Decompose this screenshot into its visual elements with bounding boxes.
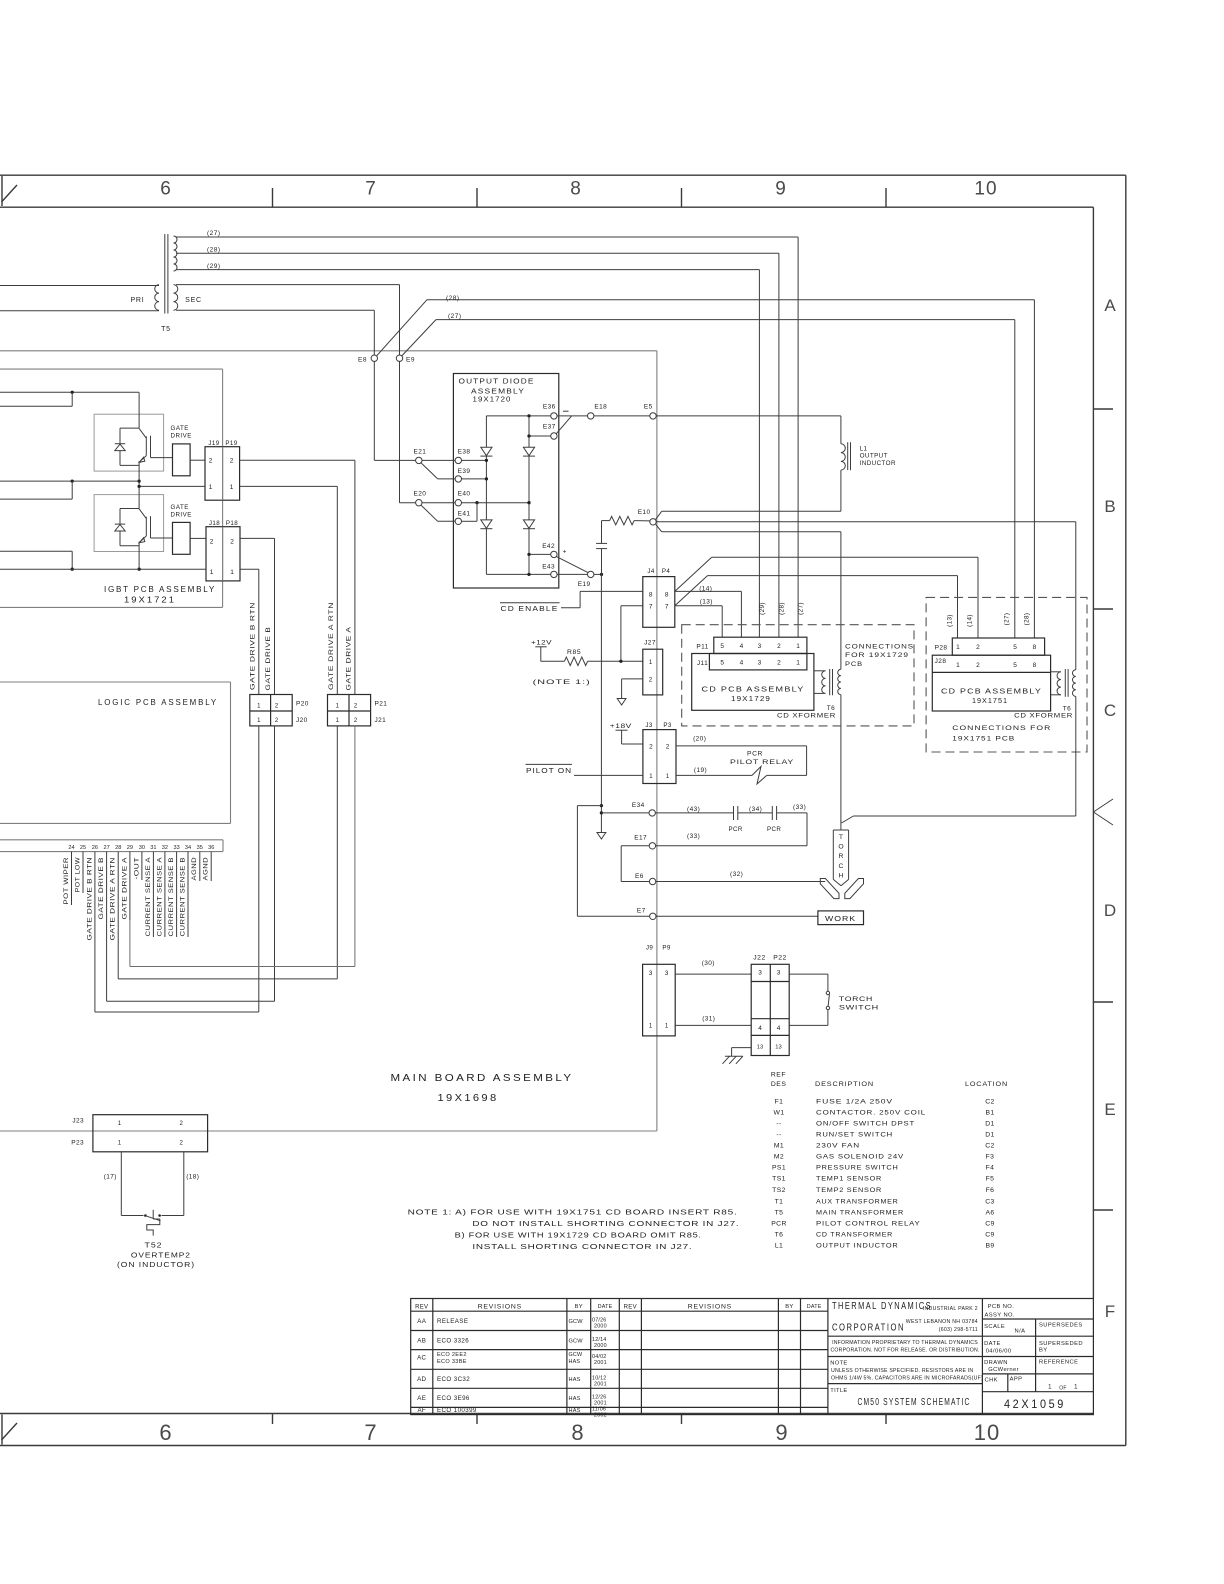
svg-text:34: 34 bbox=[185, 845, 191, 851]
svg-text:CD XFORMER: CD XFORMER bbox=[1014, 713, 1073, 720]
wire E8 below bbox=[373, 361, 375, 460]
svg-text:C2: C2 bbox=[985, 1098, 995, 1105]
svg-text:L1: L1 bbox=[860, 446, 868, 453]
wire J19 pin1 to phase leg bbox=[139, 485, 205, 487]
CD transformer T6 1751 core bbox=[1064, 669, 1066, 697]
terminal E5 bbox=[650, 413, 656, 419]
svg-text:(29): (29) bbox=[759, 602, 766, 615]
diode D upper-right bbox=[523, 447, 534, 455]
terminal E41 bbox=[455, 518, 461, 524]
svg-text:PCR: PCR bbox=[747, 750, 763, 757]
svg-text:E18: E18 bbox=[594, 403, 607, 410]
svg-text:CURRENT SENSE A: CURRENT SENSE A bbox=[156, 857, 163, 937]
svg-text:+12V: +12V bbox=[531, 639, 552, 646]
svg-text:P28: P28 bbox=[935, 645, 948, 652]
svg-text:2002: 2002 bbox=[594, 1413, 607, 1419]
wire pin26 to J20 pin1 bbox=[94, 941, 96, 1012]
svg-text:TEMP1 SENSOR: TEMP1 SENSOR bbox=[816, 1176, 882, 1183]
terminal E38 bbox=[455, 457, 461, 463]
svg-text:GCW: GCW bbox=[569, 1352, 583, 1358]
svg-text:CURRENT SENSE A: CURRENT SENSE A bbox=[145, 857, 152, 937]
svg-text:C3: C3 bbox=[985, 1199, 995, 1206]
svg-text:REF: REF bbox=[771, 1071, 786, 1078]
IGBT phase leg wire bbox=[138, 392, 140, 428]
capacitor PCR 1 bbox=[733, 806, 735, 820]
svg-text:J9: J9 bbox=[646, 945, 653, 952]
svg-text:D1: D1 bbox=[985, 1131, 995, 1138]
svg-text:E20: E20 bbox=[414, 491, 427, 498]
wire E7 to WORK bbox=[656, 915, 818, 917]
svg-text:TEMP2 SENSOR: TEMP2 SENSOR bbox=[816, 1187, 882, 1194]
connector J3 P3 bbox=[643, 730, 676, 784]
svg-text:A: A bbox=[1104, 296, 1116, 315]
svg-text:C2: C2 bbox=[985, 1143, 995, 1150]
svg-text:13: 13 bbox=[757, 1044, 763, 1050]
svg-text:J27: J27 bbox=[644, 639, 656, 646]
svg-text:INDUSTRIAL PARK 2: INDUSTRIAL PARK 2 bbox=[923, 1306, 978, 1312]
torch electrode right wing bbox=[845, 879, 864, 899]
wire E34 left to ground rail bbox=[601, 812, 649, 814]
svg-text:DATE: DATE bbox=[807, 1304, 822, 1310]
terminal E18 bbox=[588, 413, 594, 419]
dashed box connections for 19X1751 PCB bbox=[926, 597, 1087, 752]
svg-text:6: 6 bbox=[160, 179, 172, 200]
CD transformer T6 1751 secondary bbox=[1072, 670, 1075, 697]
svg-text:THERMAL DYNAMICS: THERMAL DYNAMICS bbox=[832, 1301, 932, 1312]
diode string right bbox=[528, 416, 530, 447]
svg-text:B9: B9 bbox=[985, 1242, 994, 1249]
svg-text:POT WIPER: POT WIPER bbox=[63, 857, 70, 905]
earth ground at J22 pin13 bbox=[732, 1047, 752, 1049]
svg-text:PCR: PCR bbox=[771, 1220, 787, 1227]
svg-text:8: 8 bbox=[665, 592, 669, 599]
wire pin27 to J20 pin2 bbox=[106, 920, 108, 1001]
svg-text:7: 7 bbox=[665, 604, 669, 611]
svg-text:C: C bbox=[1104, 701, 1116, 720]
svg-text:TS1: TS1 bbox=[772, 1176, 786, 1183]
svg-text:PRI: PRI bbox=[130, 297, 144, 304]
svg-text:19X1751: 19X1751 bbox=[972, 696, 1008, 705]
svg-text:REV: REV bbox=[415, 1304, 428, 1310]
svg-text:REFERENCE: REFERENCE bbox=[1039, 1360, 1078, 1366]
svg-text:CD XFORMER: CD XFORMER bbox=[777, 713, 836, 720]
CD PCB assembly box 19X1729 bbox=[692, 654, 814, 711]
svg-text:H: H bbox=[839, 872, 844, 879]
svg-text:3: 3 bbox=[758, 660, 762, 667]
terminal E19 bbox=[588, 571, 594, 577]
wire negative output rail E36-E18-E5 bbox=[486, 415, 550, 417]
svg-text:D1: D1 bbox=[985, 1120, 995, 1127]
svg-text:J18: J18 bbox=[209, 520, 220, 527]
svg-text:GATE DRIVE B: GATE DRIVE B bbox=[98, 857, 105, 920]
pin 31 leader and label CURRENT SENSE A bbox=[152, 852, 154, 937]
terminal E6 bbox=[649, 878, 655, 884]
wire J4 pin7 to J27 bbox=[621, 605, 643, 607]
connector J23 P23 bbox=[93, 1115, 208, 1152]
svg-text:4: 4 bbox=[740, 643, 744, 650]
wire E42 diagonal to E19 bbox=[556, 557, 588, 573]
svg-text:29: 29 bbox=[127, 845, 133, 851]
wire GATE DRIVE A RTN net bbox=[240, 485, 338, 487]
svg-text:FUSE 1/2A 250V: FUSE 1/2A 250V bbox=[816, 1098, 893, 1105]
svg-text:(33): (33) bbox=[687, 833, 700, 840]
svg-text:AGND: AGND bbox=[191, 857, 198, 881]
svg-text:DATE: DATE bbox=[984, 1341, 1001, 1347]
wire E17 row bbox=[656, 845, 807, 847]
svg-text:FOR 19X1729: FOR 19X1729 bbox=[845, 652, 909, 659]
svg-text:T5: T5 bbox=[161, 326, 171, 333]
svg-text:SEC: SEC bbox=[185, 297, 202, 304]
svg-text:OVERTEMP2: OVERTEMP2 bbox=[131, 1250, 191, 1259]
svg-text:D: D bbox=[1104, 901, 1116, 920]
wire net 14 to P11 pin4 bbox=[675, 590, 742, 592]
svg-text:F4: F4 bbox=[986, 1165, 995, 1172]
svg-text:MAIN TRANSFORMER: MAIN TRANSFORMER bbox=[816, 1209, 904, 1216]
main board assembly outline 19X1698 bbox=[0, 350, 657, 352]
svg-text:33: 33 bbox=[173, 845, 179, 851]
wire net 31 bbox=[675, 1024, 751, 1026]
svg-text:E8: E8 bbox=[358, 357, 367, 364]
ground rail from E19 bbox=[600, 574, 602, 832]
svg-text:2: 2 bbox=[777, 643, 781, 650]
wire T5 sec to E9 bbox=[176, 284, 400, 286]
svg-text:25: 25 bbox=[80, 845, 86, 851]
svg-text:AA: AA bbox=[417, 1318, 426, 1325]
svg-text:(31): (31) bbox=[702, 1016, 715, 1023]
svg-text:AB: AB bbox=[417, 1338, 426, 1345]
svg-text:7: 7 bbox=[649, 604, 653, 611]
wire net 29 from T5 bbox=[176, 269, 759, 271]
svg-text:E21: E21 bbox=[414, 449, 427, 456]
svg-text:GCW: GCW bbox=[569, 1339, 584, 1345]
svg-text:ECO 2EE2: ECO 2EE2 bbox=[437, 1352, 467, 1358]
pin 29 leader and label GATE DRIVE A bbox=[129, 852, 131, 920]
svg-text:PCR: PCR bbox=[729, 826, 743, 833]
svg-text:DES: DES bbox=[771, 1081, 786, 1088]
svg-text:(33): (33) bbox=[793, 804, 806, 811]
svg-text:C9: C9 bbox=[985, 1220, 995, 1227]
svg-text:HAS: HAS bbox=[569, 1377, 581, 1383]
svg-text:(28): (28) bbox=[778, 602, 785, 615]
output diode assembly box 19X1720 bbox=[453, 374, 558, 589]
svg-text:E5: E5 bbox=[644, 403, 653, 410]
wire pin29 to J21 pin2 bbox=[129, 920, 131, 967]
wire pin28 to J21 pin1 bbox=[117, 941, 119, 979]
diode D lower-left bbox=[481, 520, 492, 528]
svg-text:DRIVE: DRIVE bbox=[171, 433, 192, 440]
svg-text:GATE DRIVE A: GATE DRIVE A bbox=[121, 857, 128, 920]
svg-text:(20): (20) bbox=[693, 736, 706, 743]
IGBT transistor bbox=[139, 509, 146, 519]
svg-text:(603) 298-5711: (603) 298-5711 bbox=[939, 1327, 978, 1333]
connector J4 P4 bbox=[643, 577, 675, 628]
svg-text:8: 8 bbox=[649, 592, 653, 599]
svg-text:19X1698: 19X1698 bbox=[438, 1092, 499, 1104]
svg-text:SWITCH: SWITCH bbox=[839, 1005, 879, 1012]
svg-text:NOTE 1: A) FOR USE WITH 19X175: NOTE 1: A) FOR USE WITH 19X1751 CD BOARD… bbox=[408, 1208, 738, 1217]
wire gate to gate drive bbox=[151, 537, 173, 539]
svg-text:19X1751 PCB: 19X1751 PCB bbox=[952, 736, 1015, 743]
svg-text:GATE DRIVE A RTN: GATE DRIVE A RTN bbox=[328, 602, 335, 690]
svg-text:36: 36 bbox=[208, 845, 214, 851]
terminal E36 bbox=[551, 413, 557, 419]
svg-text:1: 1 bbox=[956, 644, 960, 651]
svg-text:(32): (32) bbox=[730, 871, 743, 878]
svg-text:PCB NO.: PCB NO. bbox=[988, 1304, 1015, 1310]
svg-text:RUN/SET SWITCH: RUN/SET SWITCH bbox=[816, 1131, 893, 1138]
wire E20 diagonal to E41 bbox=[421, 505, 438, 521]
svg-text:J11: J11 bbox=[697, 660, 708, 667]
wire J27 pin2 to ground bbox=[622, 678, 643, 680]
wire GATE DRIVE B net bbox=[240, 537, 275, 539]
svg-text:(14): (14) bbox=[699, 586, 712, 593]
svg-text:J28: J28 bbox=[935, 658, 947, 665]
svg-text:CD ENABLE: CD ENABLE bbox=[501, 604, 559, 613]
ground arrow under E34 rail bbox=[597, 833, 606, 840]
svg-text:3: 3 bbox=[649, 970, 653, 977]
svg-text:(13): (13) bbox=[947, 614, 954, 627]
logic pin header strip bbox=[0, 839, 223, 841]
svg-text:(27): (27) bbox=[448, 313, 462, 320]
svg-text:8: 8 bbox=[1033, 644, 1037, 651]
CD PCB assembly box 19X1751 bbox=[932, 655, 1050, 711]
resistor R85 bbox=[564, 657, 587, 665]
svg-text:RELEASE: RELEASE bbox=[437, 1318, 468, 1325]
svg-text:(28): (28) bbox=[446, 295, 460, 302]
gate drive block lower bbox=[173, 522, 191, 554]
svg-text:CORPORATION. NOT FOR RELEASE.: CORPORATION. NOT FOR RELEASE. OR DISTRIB… bbox=[830, 1347, 979, 1353]
svg-text:CD PCB ASSEMBLY: CD PCB ASSEMBLY bbox=[941, 687, 1042, 696]
svg-text:5: 5 bbox=[720, 643, 724, 650]
svg-text:1: 1 bbox=[1074, 1385, 1078, 1391]
connector P20 J20 bbox=[250, 695, 292, 726]
svg-text:T1: T1 bbox=[775, 1199, 784, 1206]
svg-text:(34): (34) bbox=[749, 806, 762, 813]
capacitor PCR 2 bbox=[771, 806, 773, 820]
terminal E37 and wire bbox=[529, 435, 551, 437]
svg-text:SCALE: SCALE bbox=[984, 1324, 1005, 1330]
connector J11 bbox=[709, 654, 807, 670]
wire E9 below bbox=[399, 361, 401, 502]
svg-text:13: 13 bbox=[775, 1044, 781, 1050]
wire PILOT ON to J3 pin1 bbox=[574, 774, 643, 776]
svg-text:GAS SOLENOID 24V: GAS SOLENOID 24V bbox=[816, 1154, 904, 1161]
svg-text:REVISIONS: REVISIONS bbox=[478, 1304, 522, 1311]
svg-text:(NOTE 1:): (NOTE 1:) bbox=[533, 679, 591, 686]
svg-text:J20: J20 bbox=[296, 717, 308, 724]
svg-text:TORCH: TORCH bbox=[839, 996, 873, 1003]
svg-text:P21: P21 bbox=[375, 701, 388, 708]
zone letter ticks right bbox=[1093, 408, 1113, 410]
svg-text:CONNECTIONS FOR: CONNECTIONS FOR bbox=[952, 725, 1051, 732]
pin 30 leader and label -OUT bbox=[141, 852, 143, 880]
svg-text:--: -- bbox=[776, 1120, 781, 1127]
svg-text:J21: J21 bbox=[375, 717, 387, 724]
wire net 27 from E9 to P28 pin5 bbox=[402, 320, 436, 356]
svg-text:(43): (43) bbox=[687, 806, 700, 813]
svg-text:E38: E38 bbox=[458, 449, 471, 456]
svg-text:04/06/00: 04/06/00 bbox=[986, 1349, 1012, 1355]
svg-text:ECO 3326: ECO 3326 bbox=[437, 1338, 469, 1345]
wire net 28 from T5 bbox=[176, 252, 779, 254]
CD transformer T6 1729 primary bbox=[814, 670, 826, 672]
svg-text:P4: P4 bbox=[662, 568, 671, 575]
diode D lower-right bbox=[523, 520, 534, 528]
svg-text:P23: P23 bbox=[71, 1140, 84, 1147]
svg-text:(28): (28) bbox=[207, 247, 221, 254]
connector P28 bbox=[952, 638, 1044, 655]
svg-text:E10: E10 bbox=[638, 509, 651, 516]
terminal E43 bbox=[551, 571, 557, 577]
svg-text:OHMS 1/4W 5%. CAPACITORS ARE I: OHMS 1/4W 5%. CAPACITORS ARE IN MICROFAR… bbox=[831, 1376, 983, 1382]
svg-text:GCWerner: GCWerner bbox=[988, 1367, 1019, 1373]
terminal E42 and wire bbox=[529, 553, 551, 555]
svg-text:TS2: TS2 bbox=[772, 1187, 786, 1194]
terminal E40 bbox=[455, 500, 461, 506]
svg-text:P22: P22 bbox=[773, 954, 787, 961]
svg-text:10: 10 bbox=[974, 1420, 1000, 1445]
svg-text:2001: 2001 bbox=[594, 1382, 607, 1388]
svg-text:P20: P20 bbox=[296, 701, 309, 708]
svg-text:E40: E40 bbox=[458, 491, 471, 498]
transformer T5 primary winding bbox=[155, 285, 159, 311]
terminal E9 bbox=[396, 355, 402, 361]
svg-text:O: O bbox=[838, 844, 843, 851]
svg-text:5: 5 bbox=[720, 660, 724, 667]
svg-text:7: 7 bbox=[364, 1420, 377, 1445]
svg-text:2001: 2001 bbox=[594, 1401, 607, 1407]
svg-text:GCW: GCW bbox=[569, 1319, 584, 1325]
wire E9 to E20 to E40 bbox=[400, 502, 416, 504]
svg-text:2: 2 bbox=[230, 538, 234, 545]
svg-text:24: 24 bbox=[68, 845, 74, 851]
svg-text:E19: E19 bbox=[578, 581, 591, 588]
connector P21 J21 bbox=[328, 695, 371, 726]
svg-text:T52: T52 bbox=[145, 1241, 163, 1250]
svg-text:1: 1 bbox=[796, 660, 800, 667]
svg-text:M2: M2 bbox=[774, 1154, 784, 1161]
svg-text:P18: P18 bbox=[226, 520, 238, 527]
svg-text:OUTPUT INDUCTOR: OUTPUT INDUCTOR bbox=[816, 1242, 899, 1249]
svg-text:5: 5 bbox=[1013, 644, 1017, 651]
svg-text:A6: A6 bbox=[985, 1209, 994, 1216]
svg-text:E37: E37 bbox=[543, 424, 556, 431]
svg-text:P19: P19 bbox=[225, 440, 237, 447]
svg-text:HAS: HAS bbox=[569, 1396, 581, 1402]
terminal E17 bbox=[649, 843, 655, 849]
svg-text:DATE: DATE bbox=[598, 1304, 613, 1310]
logic PCB assembly box bbox=[0, 681, 231, 683]
svg-text:GATE DRIVE B RTN: GATE DRIVE B RTN bbox=[86, 857, 93, 941]
svg-text:T6: T6 bbox=[827, 705, 835, 712]
terminal E7 bbox=[650, 913, 656, 919]
svg-text:AUX TRANSFORMER: AUX TRANSFORMER bbox=[816, 1199, 899, 1206]
svg-text:1: 1 bbox=[1048, 1385, 1052, 1391]
svg-text:AC: AC bbox=[417, 1355, 426, 1362]
svg-text:W1: W1 bbox=[774, 1109, 785, 1116]
wire gate drive lower to J18 bbox=[190, 537, 206, 539]
svg-text:CHK: CHK bbox=[985, 1377, 998, 1383]
svg-text:E9: E9 bbox=[406, 357, 415, 364]
svg-text:4: 4 bbox=[740, 660, 744, 667]
svg-text:WORK: WORK bbox=[825, 914, 856, 923]
svg-text:CURRENT SENSE B: CURRENT SENSE B bbox=[168, 857, 175, 937]
svg-text:E42: E42 bbox=[542, 543, 555, 550]
svg-text:(28): (28) bbox=[1023, 613, 1030, 626]
terminal E8 bbox=[371, 355, 377, 361]
svg-text:P11: P11 bbox=[696, 644, 708, 651]
svg-text:TITLE: TITLE bbox=[830, 1388, 847, 1394]
title block right column bbox=[981, 1299, 983, 1415]
svg-text:UNLESS OTHERWISE SPECIFIED. RE: UNLESS OTHERWISE SPECIFIED. RESISTORS AR… bbox=[831, 1368, 973, 1374]
svg-text:CM50 SYSTEM SCHEMATIC: CM50 SYSTEM SCHEMATIC bbox=[858, 1397, 971, 1408]
svg-text:GATE DRIVE B: GATE DRIVE B bbox=[265, 627, 272, 691]
svg-text:1: 1 bbox=[230, 569, 234, 576]
svg-text:DO NOT INSTALL SHORTING CONNEC: DO NOT INSTALL SHORTING CONNECTOR IN J27… bbox=[472, 1219, 739, 1228]
inductor L1 bbox=[841, 444, 845, 470]
svg-text:(27): (27) bbox=[798, 602, 805, 615]
svg-text:(30): (30) bbox=[702, 960, 715, 967]
svg-text:(18): (18) bbox=[186, 1174, 199, 1181]
zone ticks bottom bbox=[272, 1414, 274, 1425]
gate drive block upper bbox=[173, 444, 191, 476]
svg-text:(19): (19) bbox=[694, 767, 707, 774]
wire GATE DRIVE A net bbox=[240, 459, 355, 461]
svg-text:19X1721: 19X1721 bbox=[124, 595, 176, 605]
connector J27 bbox=[643, 649, 663, 695]
svg-text:T6: T6 bbox=[1063, 705, 1071, 712]
wire E7 to ground rail bbox=[577, 915, 649, 917]
svg-text:9: 9 bbox=[775, 1420, 788, 1445]
svg-text:NOTE: NOTE bbox=[830, 1361, 847, 1367]
terminal E21 bbox=[416, 457, 422, 463]
svg-text:31: 31 bbox=[150, 845, 156, 851]
svg-text:INFORMATION PROPRIETARY TO THE: INFORMATION PROPRIETARY TO THERMAL DYNAM… bbox=[832, 1340, 978, 1346]
svg-text:+18V: +18V bbox=[610, 723, 632, 730]
svg-text:T6: T6 bbox=[775, 1231, 784, 1238]
zone continuation arrow right bbox=[1093, 799, 1113, 812]
revision table rows bbox=[411, 1310, 828, 1312]
wire E10 to CD transformer 1751 secondary bbox=[656, 521, 1076, 523]
minus sign bbox=[563, 410, 569, 412]
svg-text:MAIN BOARD ASSEMBLY: MAIN BOARD ASSEMBLY bbox=[391, 1072, 574, 1084]
svg-text:HAS: HAS bbox=[569, 1359, 581, 1365]
svg-text:42X1059: 42X1059 bbox=[1004, 1399, 1066, 1411]
wire net 13 to P11 pin5 bbox=[675, 605, 722, 607]
svg-text:PCB: PCB bbox=[845, 661, 863, 668]
svg-text:BY: BY bbox=[575, 1304, 583, 1310]
svg-text:BY: BY bbox=[1039, 1348, 1048, 1354]
svg-text:PILOT RELAY: PILOT RELAY bbox=[730, 759, 794, 766]
svg-text:IGBT PCB ASSEMBLY: IGBT PCB ASSEMBLY bbox=[104, 584, 216, 594]
wire E34 capacitor chain bbox=[655, 812, 733, 814]
corner mark bottom-left bbox=[1, 1415, 3, 1445]
svg-text:35: 35 bbox=[197, 845, 203, 851]
svg-text:230V FAN: 230V FAN bbox=[816, 1143, 860, 1150]
svg-text:8: 8 bbox=[570, 179, 582, 200]
svg-text:3: 3 bbox=[777, 970, 781, 977]
svg-text:(17): (17) bbox=[104, 1174, 117, 1181]
pin 36 leader and label AGND bbox=[210, 852, 212, 881]
terminal E10 bbox=[650, 519, 656, 525]
terminal E20 bbox=[416, 500, 422, 506]
svg-text:B1: B1 bbox=[985, 1109, 994, 1116]
svg-text:PCR: PCR bbox=[767, 826, 781, 833]
svg-text:27: 27 bbox=[103, 845, 109, 851]
wire IGBT input pair C bbox=[0, 550, 72, 552]
transformer T5 core bbox=[164, 234, 166, 314]
svg-text:(ON INDUCTOR): (ON INDUCTOR) bbox=[117, 1260, 195, 1269]
